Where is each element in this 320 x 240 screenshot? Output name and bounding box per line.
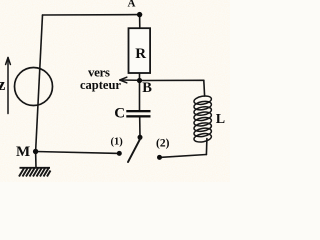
wire B down to capacitor <box>139 81 141 111</box>
svg-text:z: z <box>0 75 6 94</box>
terminal 1 dot <box>117 151 122 156</box>
svg-text:R: R <box>135 46 146 62</box>
svg-text:L: L <box>216 112 225 127</box>
terminal 2 dot <box>157 155 162 160</box>
generator G (circle) <box>15 68 53 106</box>
node A junction dot <box>137 12 142 17</box>
arrow vers capteur <box>120 77 137 83</box>
switch lever <box>128 138 141 162</box>
wire left vertical (generator branch) <box>36 15 43 152</box>
wire capacitor to switch pole <box>139 117 141 137</box>
inductor L coil <box>193 95 212 144</box>
wire corner down to coil top <box>203 80 206 96</box>
wire coil bottom down <box>205 139 208 155</box>
svg-text:A: A <box>128 0 136 10</box>
node M junction dot <box>33 149 38 154</box>
capacitor C plates <box>126 110 150 112</box>
node B junction dot <box>137 78 142 83</box>
wire M to ground <box>35 152 37 168</box>
wire A to R top <box>139 15 141 29</box>
wire bottom left M to terminal 1 <box>36 152 120 154</box>
ground symbol <box>19 168 51 177</box>
svg-text:M: M <box>16 144 30 160</box>
wire R bottom to B <box>139 73 141 81</box>
resistor R (rectangle) <box>129 28 151 73</box>
svg-text:C: C <box>114 106 125 122</box>
svg-text:(2): (2) <box>156 138 170 150</box>
wire bottom right to terminal 2 <box>160 155 207 158</box>
svg-text:B: B <box>142 80 152 96</box>
svg-text:capteur: capteur <box>80 78 121 92</box>
svg-text:(1): (1) <box>111 137 124 148</box>
voltage arrow u <box>6 58 11 114</box>
wire B to right corner <box>140 79 204 81</box>
switch pole dot <box>138 135 143 140</box>
wire top horizontal <box>43 14 140 16</box>
